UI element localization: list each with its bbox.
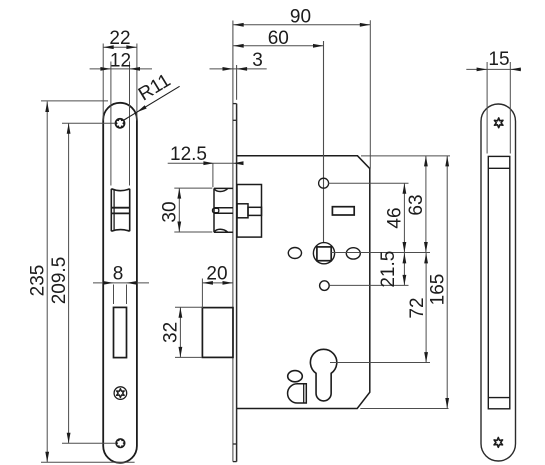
- svg-text:15: 15: [488, 49, 509, 70]
- top screw hole (countersunk torx): [115, 118, 126, 129]
- D-shaped bolt stump: [288, 384, 307, 403]
- svg-text:72: 72: [407, 297, 428, 318]
- dimension 63: [406, 156, 428, 253]
- latch bolt front detail: [111, 190, 129, 231]
- svg-text:60: 60: [268, 28, 289, 49]
- oval hole right of follower: [346, 248, 360, 259]
- dimension 15: [466, 49, 521, 71]
- follower with square spindle hole: [313, 243, 334, 264]
- extension line for 90 (case back): [369, 20, 371, 168]
- lock case outline: [237, 156, 370, 409]
- deadbolt cutout in faceplate: [114, 307, 127, 357]
- svg-text:235: 235: [27, 265, 48, 297]
- latch cutout in faceplate: [111, 189, 129, 231]
- extension line for 60 (backset axis): [323, 41, 325, 243]
- dimension 12.5: [168, 144, 244, 165]
- svg-text:21.5: 21.5: [378, 251, 399, 288]
- dimension 8: [93, 264, 149, 285]
- radius leader R11: [122, 70, 180, 121]
- small oval near cylinder: [288, 371, 303, 382]
- svg-text:20: 20: [206, 264, 227, 285]
- svg-text:46: 46: [385, 207, 406, 228]
- svg-text:32: 32: [161, 322, 182, 343]
- extension lines for 12 dim: [111, 62, 130, 186]
- dimension 72: [407, 253, 428, 363]
- cover plate inner channel: [488, 156, 510, 408]
- svg-text:209.5: 209.5: [49, 257, 70, 305]
- extension lines for 15 dim: [487, 62, 510, 154]
- svg-text:12: 12: [110, 51, 131, 72]
- lock faceplate side view strip: [233, 21, 237, 462]
- latch bolt head (side view): [214, 188, 233, 232]
- svg-text:90: 90: [290, 7, 311, 28]
- dimension 46: [385, 183, 407, 252]
- dimension 165: [427, 156, 449, 409]
- svg-text:63: 63: [406, 194, 427, 215]
- cover faceplate rear view outline: [481, 104, 516, 461]
- dimension 30 extension lines: [174, 188, 212, 232]
- extension lines for 22 dim: [103, 44, 137, 121]
- small hole below follower: [320, 281, 330, 291]
- svg-text:22: 22: [109, 28, 130, 49]
- dimension 209.5: [49, 123, 71, 443]
- oval hole left of follower: [288, 248, 301, 259]
- extension lines for 209.5 dim: [62, 123, 116, 443]
- torx screw top (rear plate): [494, 118, 502, 128]
- svg-text:3: 3: [252, 50, 263, 71]
- dimension 90: [233, 7, 370, 28]
- dimension 3: [210, 50, 267, 71]
- dimension 12: [90, 51, 152, 72]
- dimension 21.5: [378, 251, 407, 288]
- extension line 20: [201, 279, 203, 309]
- bottom screw hole (countersunk torx): [115, 438, 125, 448]
- dimension 235: [27, 102, 49, 463]
- dimension 30: [160, 188, 182, 232]
- extension line 12.5: [212, 163, 214, 187]
- faceplate front view outline: [103, 103, 137, 463]
- svg-text:165: 165: [427, 274, 448, 306]
- latch guide nub: [213, 208, 219, 212]
- extension lines for 235 dim: [41, 101, 135, 462]
- right side extension lines: [328, 156, 450, 409]
- torx screw bottom (rear plate): [494, 438, 502, 448]
- upper mounting hole: [319, 178, 329, 188]
- deadbolt thrown (side view): [202, 308, 233, 358]
- dimension 32: [161, 307, 183, 357]
- dimension 20: [202, 264, 233, 285]
- svg-text:8: 8: [113, 264, 124, 285]
- svg-text:12.5: 12.5: [170, 144, 207, 165]
- torx screw mid-bottom: [114, 387, 127, 400]
- svg-text:30: 30: [160, 201, 181, 222]
- dimension 60: [233, 28, 323, 49]
- slot above follower: [332, 207, 354, 215]
- euro profile cylinder hole: [310, 349, 336, 401]
- dimension 22: [103, 28, 137, 49]
- dimension 32 extension lines: [175, 307, 202, 357]
- extension lines for 8 dim: [114, 285, 127, 305]
- latch body in case: [237, 185, 262, 238]
